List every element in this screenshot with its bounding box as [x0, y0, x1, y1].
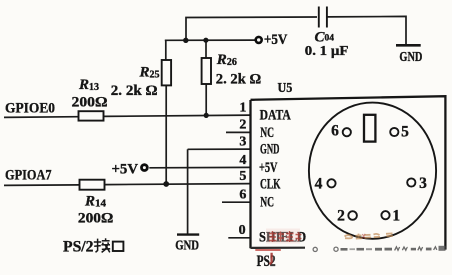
svg-text:2. 2k Ω: 2. 2k Ω: [111, 83, 158, 99]
connector key slot: [364, 115, 375, 142]
svg-text:4: 4: [239, 153, 246, 168]
wire: GPIOE0 to R13: [4, 116, 79, 119]
junction: R26 on DATA net: [204, 113, 209, 118]
svg-text:0. 1 µF: 0. 1 µF: [305, 44, 349, 59]
wire: pin3 GND vertical drop: [187, 149, 189, 233]
watermark red glyphs over SHIELD: [269, 231, 302, 242]
svg-text:0: 0: [239, 223, 246, 238]
capacitor C04 plates: [319, 7, 327, 28]
wire: U5 pin2 NC stub: [226, 131, 251, 133]
wire: U5 pin6 NC stub: [222, 201, 251, 203]
svg-text:PS/2: PS/2: [63, 239, 94, 256]
svg-text:PS2: PS2: [257, 253, 276, 270]
wire: R26 bottom lead down to DATA net: [205, 84, 207, 115]
svg-text:1: 1: [392, 207, 400, 224]
caption glyph kou (CJK approximation): [113, 242, 124, 251]
+5V terminal left: [142, 165, 148, 171]
wire: R13 to U5 pin1 DATA net: [104, 115, 251, 116]
svg-text:3: 3: [239, 135, 246, 150]
svg-text:3: 3: [419, 175, 427, 192]
pin hole 2: [348, 211, 357, 220]
svg-text:+5V: +5V: [112, 162, 139, 178]
svg-text:GPIOA7: GPIOA7: [5, 167, 52, 183]
junction: top rail / +5V rail: [183, 38, 188, 43]
connector face circle: [309, 103, 436, 239]
svg-text:2. 2k Ω: 2. 2k Ω: [216, 72, 261, 88]
junction: R26 top at +5V rail: [203, 38, 208, 43]
svg-text:NC: NC: [260, 194, 274, 210]
caption glyph jie (CJK approximation): [94, 238, 110, 252]
connector U5 box: [251, 96, 446, 249]
resistor R25 body: [162, 60, 171, 85]
svg-text:+5V: +5V: [264, 32, 288, 48]
resistor R26 body: [202, 58, 211, 84]
+5V terminal top: [256, 37, 262, 43]
svg-text:2: 2: [337, 207, 345, 224]
resistor R13 body: [79, 111, 104, 120]
svg-text:6: 6: [331, 123, 339, 140]
wire: +5V rail (y=40): [165, 39, 255, 41]
svg-text:5: 5: [401, 124, 409, 141]
ground bottom-middle: [177, 233, 199, 235]
svg-text:GND: GND: [175, 238, 199, 253]
pin hole 6: [343, 128, 351, 136]
watermark red tick inside tan cluster: [362, 234, 365, 239]
wire: R25 bottom lead down to CLK net: [165, 85, 167, 184]
svg-text:1: 1: [239, 101, 246, 116]
connector U5 box bottom edge: [251, 247, 306, 249]
svg-text:U5: U5: [278, 80, 293, 95]
svg-text:GPIOE0: GPIOE0: [5, 101, 55, 117]
wire: R26 top lead: [205, 40, 207, 58]
wire: +5V terminal to U5 pin4: [149, 166, 250, 168]
wire: R25 top lead: [165, 40, 167, 60]
ground top-right: [396, 44, 421, 47]
svg-text:GND: GND: [399, 49, 422, 64]
svg-text:5: 5: [239, 169, 246, 184]
wire: U5 pin0 SHIELD stub: [228, 237, 250, 239]
svg-text:CLK: CLK: [260, 176, 281, 192]
watermark pink haze behind red glyphs: [266, 229, 300, 244]
watermark red stroke over PS2 digit: [270, 253, 272, 264]
svg-text:2: 2: [239, 118, 246, 133]
wire: U5 pin3 GND net horizontal: [188, 148, 251, 150]
pin hole 3: [407, 178, 415, 186]
watermark tan glyphs on connector bottom: [345, 233, 393, 238]
svg-text:200Ω: 200Ω: [72, 94, 108, 110]
pin hole 4: [327, 179, 335, 187]
pin hole 5: [390, 128, 398, 136]
wire: top rail left segment to capacitor C04: [186, 17, 317, 40]
wire: GPIOA7 to R14: [4, 184, 80, 187]
wire: R14 to U5 pin5 CLK net: [105, 184, 251, 185]
svg-text:4: 4: [315, 175, 323, 192]
junction: R25 on CLK net: [163, 181, 169, 187]
svg-text:NC: NC: [260, 125, 274, 141]
svg-text:DATA: DATA: [260, 108, 292, 124]
pin hole 1: [381, 211, 389, 219]
svg-text:200Ω: 200Ω: [78, 210, 113, 226]
svg-text:6: 6: [239, 188, 246, 203]
watermark grey dash row on box bottom edge: [313, 246, 445, 252]
watermark red underline below SHIELD: [255, 249, 280, 251]
svg-text:GND: GND: [260, 142, 280, 158]
wire: top rail capacitor to GND drop: [328, 16, 407, 44]
resistor R14 body: [80, 180, 105, 190]
svg-text:+5V: +5V: [259, 160, 278, 176]
